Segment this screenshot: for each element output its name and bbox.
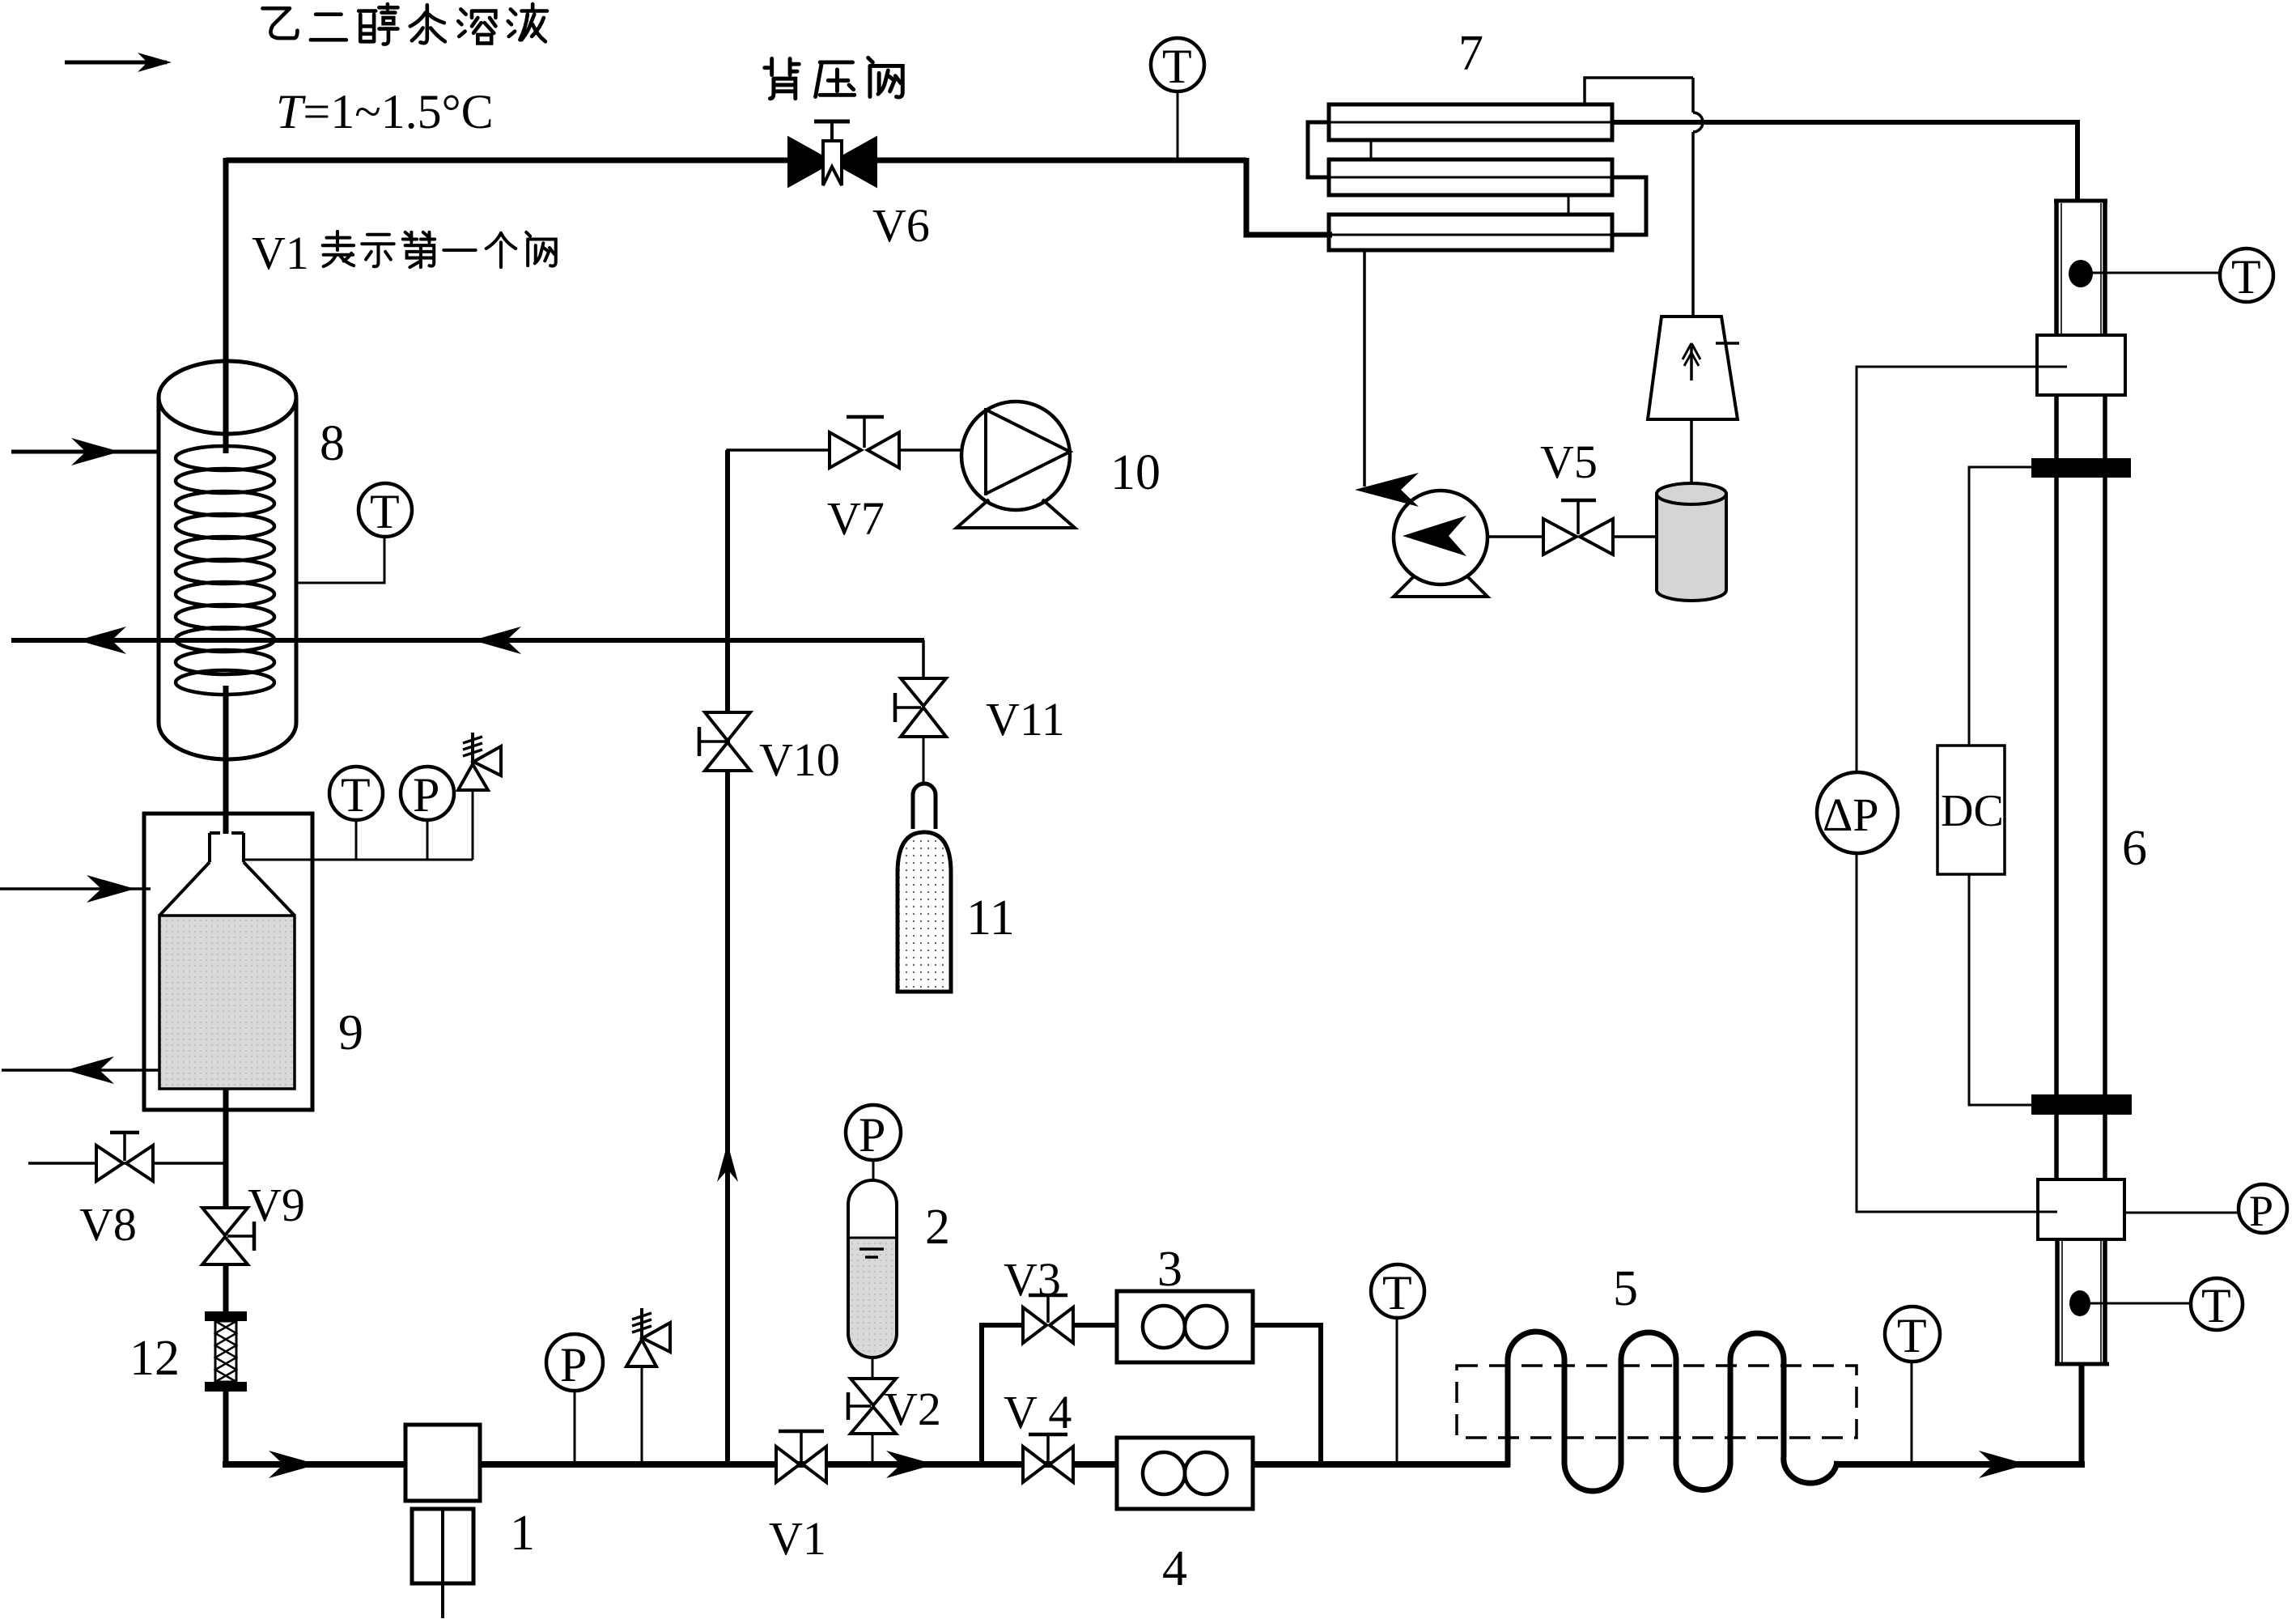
wire: dot to T gauge (top right)	[2090, 272, 2220, 274]
svg-text:V 4: V 4	[1004, 1386, 1072, 1438]
flange box (upper pressure tap)	[2037, 335, 2125, 395]
HX7 pass 3 shell	[1329, 215, 1612, 250]
note: V1 means the first valve (V1表示第一个阀)	[252, 227, 309, 279]
pressure gauge P (accumulator)	[846, 1105, 901, 1182]
pressure gauge P on vessel 9	[401, 767, 454, 860]
label: T=1~1.5 C	[276, 85, 494, 138]
svg-text:V6: V6	[872, 199, 930, 252]
wire: elbow down into test section top	[2075, 120, 2080, 201]
coolant outlet arrow out of vessel 9	[2, 1056, 159, 1084]
valve V5	[1543, 500, 1613, 555]
label: back pressure valve (背压阀)	[765, 57, 903, 98]
wire: V3 to flowmeter 3	[1073, 1323, 1117, 1328]
tube bottom cap	[2055, 1362, 2109, 1366]
wire: DC to upper electrode	[1969, 467, 2031, 746]
valve V7	[830, 417, 899, 468]
svg-text:T: T	[2201, 1279, 2231, 1332]
svg-text:V11: V11	[986, 693, 1065, 746]
inlet flow arrow (ethylene glycol supply)	[65, 53, 172, 72]
flow arrow after filter leg	[269, 1451, 317, 1478]
wire: elbow down to HX7 bottom tube inner line	[1246, 158, 1332, 235]
svg-text:T: T	[2231, 250, 2261, 304]
flow arrow before test section	[1979, 1451, 2027, 1478]
HX7 pass1 inner tube	[1308, 121, 1612, 124]
svg-text:V10: V10	[759, 733, 840, 786]
upper electrode band (black)	[2031, 458, 2131, 478]
coolant inlet arrow into HX8	[11, 438, 159, 465]
temperature gauge T on HX8	[296, 483, 412, 583]
lower electrode band (black)	[2031, 1094, 2132, 1115]
vacuum pump 10	[957, 402, 1075, 528]
wire: refrigerant line down from HX7 elbow with crossover arc	[1693, 78, 1703, 317]
svg-text:1: 1	[510, 1506, 535, 1561]
svg-text:ΔP: ΔP	[1823, 788, 1879, 841]
temperature gauge T (test section top)	[2220, 249, 2273, 304]
svg-text:6: 6	[2122, 821, 2147, 876]
temperature gauge T (before preheater 5)	[1371, 1264, 1424, 1464]
wire: elbow down to V11	[922, 640, 925, 678]
valve V8 (drain, left)	[28, 1132, 226, 1181]
HX7 pass2 inner tube	[1308, 176, 1646, 179]
wire: vessel 9 bottom outlet	[223, 1089, 229, 1208]
HX7 shell link left (pass1-pass2)	[1370, 140, 1373, 159]
wire: accumulator to V2	[872, 1358, 874, 1379]
svg-text:4: 4	[1162, 1541, 1187, 1596]
tube walls: top segment	[2056, 201, 2105, 335]
thermocouple dot (top)	[2069, 260, 2093, 287]
valve V2 (vertical)	[848, 1379, 896, 1434]
HX7 shell top outlet elbow	[1585, 78, 1693, 104]
HX7 right U-bend connector pass2-pass3	[1611, 177, 1646, 235]
wire: tube bottom to main bottom pipe	[2079, 1364, 2085, 1468]
serpentine coil 5	[1508, 1332, 1837, 1491]
gas cylinder 11	[898, 784, 951, 992]
flow arrow into refrigeration pump	[1355, 473, 1419, 507]
valve V4	[1023, 1434, 1073, 1482]
svg-text:T: T	[370, 485, 400, 538]
valve V3	[1023, 1295, 1073, 1343]
refrigeration pump (circle with arrow)	[1394, 491, 1488, 597]
svg-text:V1: V1	[769, 1512, 826, 1565]
svg-text:V3: V3	[1004, 1253, 1061, 1306]
wire: dot to T gauge (bottom right)	[2090, 1302, 2190, 1305]
wire: V2 to bottom pipe	[872, 1434, 874, 1464]
wire: V9 to filter	[223, 1264, 229, 1315]
receiver cylinder (gray)	[1657, 483, 1726, 601]
wire: riser from top pipe into HX8	[223, 158, 229, 453]
temperature gauge T on vessel 9	[329, 767, 383, 860]
filter 12	[205, 1311, 247, 1392]
wire: bypass up-leg to V3	[982, 1325, 1023, 1464]
HX7 pass 1 shell	[1329, 104, 1612, 140]
svg-text:V2: V2	[884, 1383, 941, 1435]
wire: lower box to P gauge	[2124, 1212, 2239, 1214]
pressure gauge P (after pump 1)	[546, 1334, 603, 1464]
svg-text:11: 11	[966, 890, 1015, 945]
funnel neck	[159, 833, 295, 916]
tube walls: box to upper electrode	[2056, 395, 2105, 458]
HX7 left U-bend connector pass1-pass2	[1308, 122, 1330, 177]
svg-text:12: 12	[129, 1331, 180, 1386]
differential pressure transducer dP	[1817, 772, 1898, 853]
inner bottle (gray liquid)	[159, 916, 295, 1089]
wire: V11 to gas cylinder 11	[923, 737, 925, 784]
HX8 shell (cylinder)	[159, 361, 296, 759]
safety relief valve on vessel 9	[458, 733, 501, 860]
wire: bottom main pipe (left of preheater coil)	[223, 1461, 1510, 1468]
HX7 pass 2 shell	[1329, 159, 1612, 195]
svg-text:T: T	[1162, 40, 1192, 93]
tube walls: band to lower flange box	[2056, 1115, 2105, 1179]
coolant return line out of HX8 (with two left arrows)	[11, 627, 924, 654]
HX7 pass3 inner tube	[1332, 234, 1646, 236]
safety relief valve (after pump 1)	[626, 1308, 670, 1464]
svg-text:V8: V8	[79, 1198, 137, 1251]
svg-text:T: T	[1897, 1309, 1927, 1362]
valve V9 (vertical)	[202, 1208, 254, 1264]
DC power source box	[1937, 746, 2005, 874]
temperature gauge T on top pipe	[1151, 38, 1204, 160]
label: ethylene glycol aqueous solution (乙二醇水溶液)	[262, 4, 547, 45]
HX8 coil	[176, 446, 274, 695]
wire: dP lower impulse line	[1857, 853, 2057, 1212]
valve V10 (on riser)	[699, 712, 750, 771]
wire: riser top elbow to V7	[728, 450, 830, 453]
valve V6 (back-pressure valve, filled)	[789, 121, 876, 185]
svg-text:9: 9	[338, 1005, 363, 1060]
tube top cap	[2054, 199, 2107, 203]
instrument header line from funnel	[244, 859, 473, 861]
svg-text:T: T	[1382, 1266, 1412, 1319]
wire: top main pipe V6 to elbow	[876, 158, 1246, 164]
svg-text:8: 8	[320, 416, 345, 471]
accumulator 2 (capsule, lower gray)	[848, 1180, 897, 1358]
flowmeter 4 (gear meter)	[1117, 1438, 1253, 1509]
constant temperature bath (dashed box)	[1457, 1366, 1857, 1438]
wire: DC to lower electrode	[1969, 874, 2031, 1105]
svg-text:P: P	[560, 1338, 587, 1392]
wire: filter to bottom main pipe	[223, 1392, 229, 1468]
flow arrow up on riser	[717, 1143, 738, 1182]
wire: HX8 bottom to separator funnel	[223, 686, 229, 834]
wire: top main pipe from HX8 riser to V6	[226, 158, 788, 164]
HX7 shell bottom drain line to refrigeration pump	[1363, 250, 1366, 487]
svg-text:V7: V7	[827, 492, 885, 545]
wire: main pipe from HX7 pass1 to test section 6 top	[1612, 120, 2077, 125]
svg-text:2: 2	[925, 1200, 950, 1255]
wire: bottom main pipe (right of preheater coil)	[1834, 1461, 2085, 1468]
coolant inlet arrow into vessel 9	[0, 875, 151, 903]
svg-text:V9: V9	[248, 1179, 305, 1231]
wire: flowmeter 3 to down-leg	[1253, 1325, 1321, 1464]
pressure gauge P (lower)	[2239, 1184, 2287, 1235]
svg-text:V1: V1	[252, 227, 309, 279]
flowmeter 3 (gear meter)	[1117, 1291, 1253, 1362]
svg-text:P: P	[2249, 1187, 2273, 1235]
pump 1 (plunger pump)	[405, 1425, 480, 1618]
wire: V7 to vacuum pump 10	[899, 448, 963, 452]
svg-text:P: P	[859, 1108, 885, 1162]
svg-text:V5: V5	[1540, 436, 1598, 488]
svg-text:P: P	[413, 768, 439, 822]
svg-text:7: 7	[1458, 26, 1483, 81]
tube walls: middle long segment	[2056, 478, 2105, 1094]
svg-text:10: 10	[1110, 445, 1161, 500]
svg-text:T: T	[341, 768, 371, 822]
wire: dP upper impulse line	[1857, 367, 2067, 772]
wire: V5 to refrigeration pump	[1488, 535, 1543, 538]
temperature gauge T (test section bottom right)	[2191, 1278, 2243, 1332]
wire: bypass riser (to V10/V7)	[725, 450, 730, 1464]
wire: trapezoid to receiver cylinder	[1690, 419, 1693, 486]
temperature gauge T (after coil 5)	[1885, 1307, 1940, 1464]
svg-text:DC: DC	[1941, 786, 2004, 836]
svg-text:5: 5	[1613, 1261, 1638, 1316]
float/expansion device (trapezoid)	[1648, 317, 1739, 419]
HX7 shell link right (pass2-pass3)	[1568, 195, 1570, 215]
flow arrow after V1	[886, 1451, 935, 1478]
svg-text:3: 3	[1157, 1242, 1182, 1297]
thermocouple dot (bottom)	[2069, 1290, 2090, 1316]
flange box (lower pressure tap)	[2038, 1179, 2124, 1239]
wire: receiver to valve V5	[1613, 535, 1657, 538]
vessel 9 outer box	[144, 814, 312, 1110]
valve V1	[776, 1431, 826, 1482]
svg-text:T=1~1.5°C: T=1~1.5°C	[276, 85, 494, 138]
tube walls: bottom segment	[2057, 1239, 2105, 1364]
valve V11	[895, 678, 946, 737]
